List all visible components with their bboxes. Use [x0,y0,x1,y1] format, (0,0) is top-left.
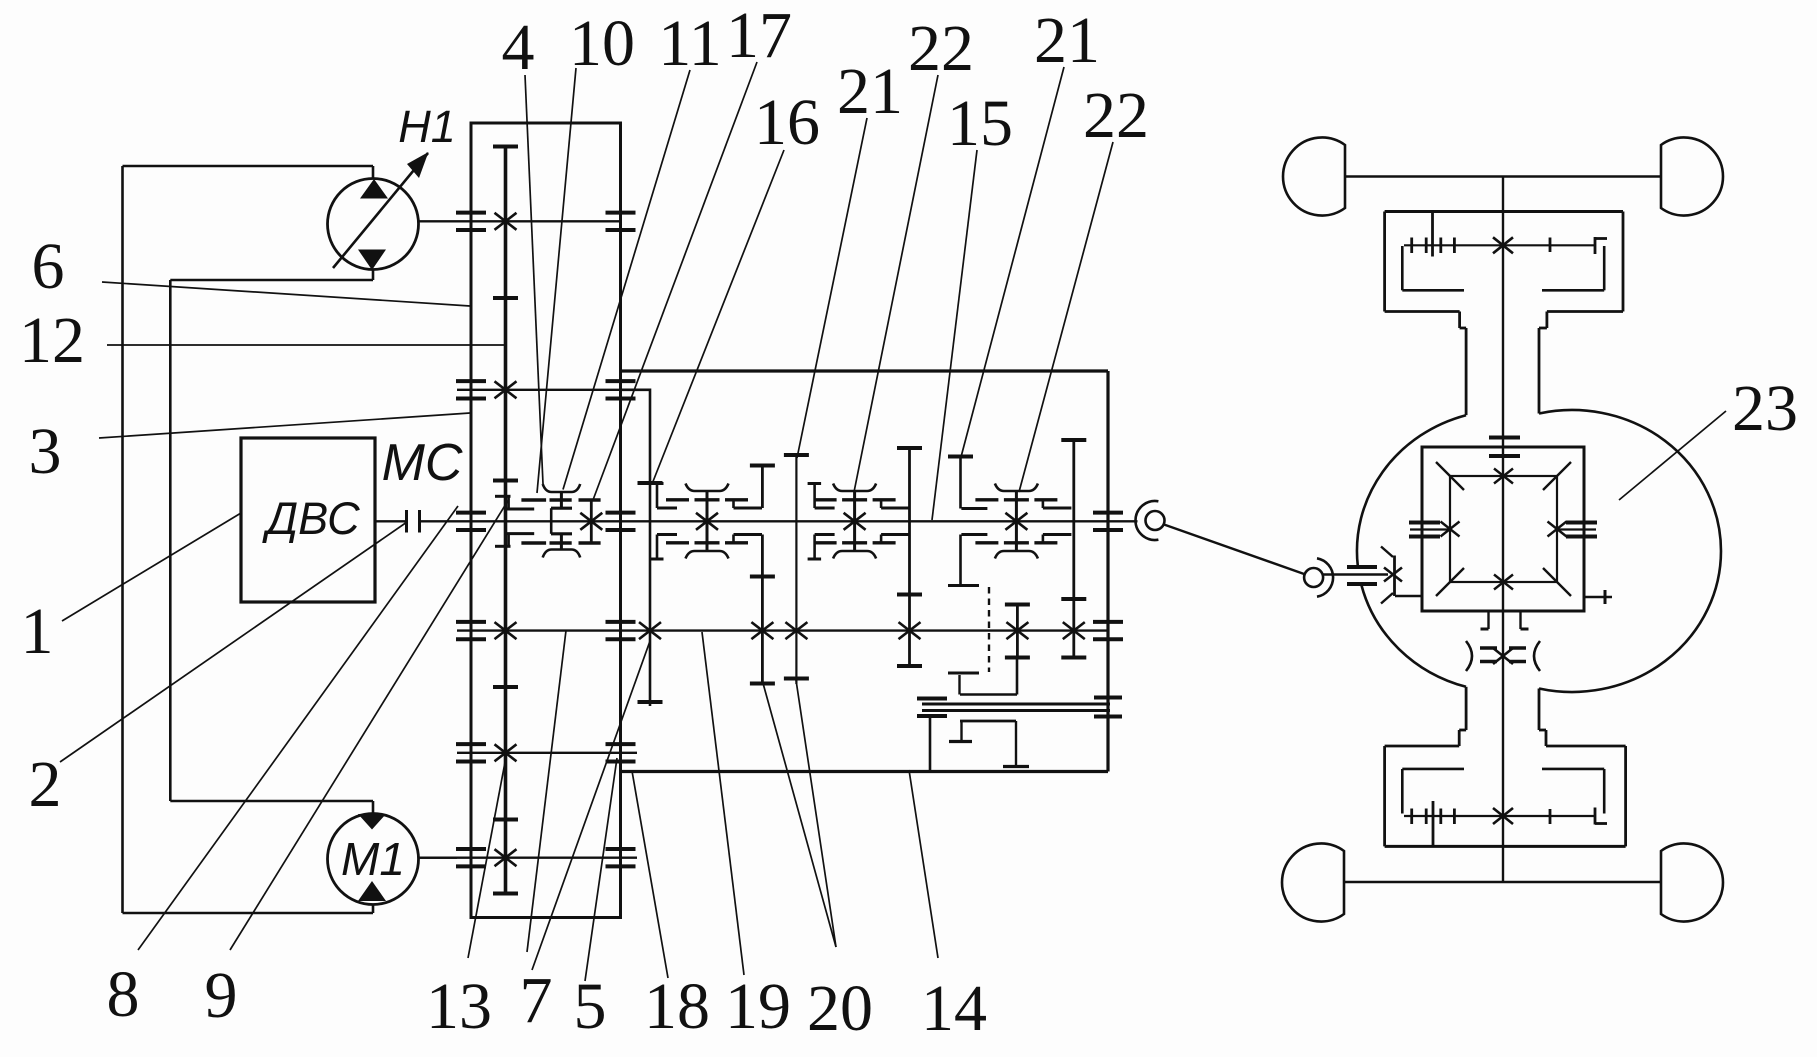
gear post right of unit 2 [761,466,764,509]
svg-text:МС: МС [382,434,463,492]
shift fork dashed linkage [948,584,979,587]
bearing center shaft upper [1489,436,1520,440]
bearing output shaft right wall [1093,511,1123,515]
bearing lower shaft drop box right wall [606,620,636,624]
svg-text:ДВС: ДВС [261,493,360,544]
leader 22 second [1019,142,1113,492]
wire hydraulic inner rail [169,280,172,801]
brake support post [917,714,947,718]
gear post right of unit 3 [908,448,911,666]
svg-text:21: 21 [1034,4,1100,77]
leader 6 [102,282,470,306]
wire hydraulic line pump top [123,165,374,168]
leader 23 [1619,411,1726,500]
svg-text:1: 1 [21,595,54,668]
bevel gear tick top-right [1543,462,1571,490]
shaft output stub [1108,520,1138,522]
leader 16 [652,150,784,484]
shaft lower intermediate [457,752,637,754]
top axle half shaft [1404,244,1596,246]
side gear shaft right [1584,596,1612,598]
final drive carrier top left [1401,246,1404,290]
gear mesh lower shaft x countershaft [495,622,517,639]
bearing bottom half shaft right [1549,809,1552,824]
countershaft gear tick a [493,296,518,300]
main gearbox housing right wall [1106,371,1109,772]
svg-text:14: 14 [921,972,987,1045]
svg-text:19: 19 [725,970,791,1043]
leader 14 [909,770,938,958]
leader 17 [593,62,757,500]
leader 12 [107,344,504,346]
shaft motor drive [419,857,638,859]
svg-text:7: 7 [520,964,553,1037]
svg-text:2: 2 [29,748,62,821]
brake bracket [960,720,1016,723]
countershaft gear tick c [493,685,518,689]
brake drum lines [922,703,1110,706]
svg-text:4: 4 [502,11,535,84]
gear mesh bottom axle [1493,808,1513,824]
shaft transfer input [1324,573,1389,575]
svg-text:17: 17 [726,0,792,72]
gear mesh motor shaft x countershaft [495,849,517,866]
svg-text:13: 13 [426,970,492,1043]
bearing input shaft right wall drop box [606,511,636,515]
svg-text:9: 9 [205,959,238,1032]
svg-text:3: 3 [29,415,62,488]
bearing top half shaft left [1410,238,1413,254]
joint flange input [1317,558,1333,596]
shaft pump drive [419,220,621,222]
wire hydraulic line motor bottom [123,912,374,915]
leader 21 second [961,67,1064,457]
leader 9 [230,499,509,950]
low range gear [1016,605,1019,658]
final drive carrier top right [1603,246,1606,290]
top axle housing [1385,210,1623,213]
leader 20 fork [764,685,837,947]
leader 3 [99,413,470,438]
countershaft vertical [504,146,508,895]
gear train to low gear [958,675,960,695]
bearing upper intermediate right wall [606,379,636,383]
gear post right of unit 4 [1072,440,1075,658]
shaft intermediate lower [457,629,1108,631]
bevel pinion input [1384,568,1402,582]
hydraulic motor M1 [328,814,419,905]
final drive carrier bottom left [1401,769,1404,814]
clutch MS disconnect [405,510,408,533]
bearing side gear left [1409,521,1440,525]
leader 10 [537,68,576,493]
countershaft gear tick b [493,479,518,483]
bearing input shaft left wall [456,511,486,515]
svg-text:8: 8 [107,958,140,1031]
side gear shaft right stub [1557,528,1596,530]
bevel gear mesh left [1441,522,1460,537]
bearing lower shaft left wall [456,620,486,624]
countershaft bottom cap [493,892,518,896]
gear post top axle [1431,212,1434,257]
leader 21 first [797,118,867,458]
main gearbox housing top [621,369,1109,372]
gear mesh lower intermediate x countershaft [495,744,517,761]
shaft engine output [375,520,406,522]
wire hydraulic left rail [121,166,124,913]
drop box housing [471,123,621,918]
gear mesh top axle [1493,237,1513,253]
bevel gear tick bottom-left [1436,568,1464,596]
wheel rear left [1282,844,1344,922]
bevel gear mesh top [1494,469,1513,484]
bearing motor shaft left wall [456,847,486,851]
svg-text:22: 22 [1083,79,1149,152]
differential inner gear square [1450,476,1557,582]
interaxle lockup clutch [1493,648,1513,664]
leader 18 [632,771,668,978]
bearing transfer case wall [1347,565,1377,569]
main gearbox housing bottom [621,770,1109,773]
svg-text:21: 21 [837,55,903,128]
bearing bottom half shaft left [1410,809,1413,825]
clutch unit 1 input [543,484,581,492]
svg-text:М1: М1 [341,833,405,885]
svg-text:23: 23 [1732,372,1798,445]
bottom axle half shaft [1404,815,1596,817]
shaft input main [457,520,1108,522]
svg-text:Н1: Н1 [398,101,456,152]
bearing motor shaft right wall [606,847,636,851]
leader 22 first [854,75,938,492]
countershaft top cap [493,145,518,149]
bearing upper intermediate left wall [456,379,486,383]
leader 2 [60,522,407,762]
bottom axle housing [1385,845,1626,848]
gear mesh upper intermediate x countershaft [495,381,517,398]
hydraulic pump H1 [328,179,419,270]
differential housing square [1422,447,1584,611]
leader 13 [468,757,506,958]
svg-text:10: 10 [569,7,635,80]
leader 5 [585,758,617,981]
final drive carrier bottom right [1603,769,1606,814]
svg-text:11: 11 [658,7,722,80]
wire hydraulic line pump bottom [372,270,375,281]
gear post left of unit 3 [795,455,797,684]
svg-text:12: 12 [19,304,85,377]
shaft central vertical [1502,177,1504,883]
clutch unit 2 [686,484,729,492]
bearing lower intermediate left wall [456,742,486,746]
drive link rod [1164,525,1306,575]
svg-text:15: 15 [947,87,1013,160]
axle rear [1344,881,1661,883]
transfer case 23 housing circle [1357,415,1466,566]
leader 19 [702,632,744,975]
bevel gear tick bottom-right [1543,568,1571,596]
gear mesh pump shaft x countershaft [495,213,517,230]
side gear shaft left stub [1410,528,1450,530]
leader 4 [525,75,543,484]
leader 11 [563,70,690,490]
wheel rear right [1661,844,1723,922]
svg-text:16: 16 [754,86,820,159]
leader 1 [62,513,241,621]
brake lower post [1015,721,1017,765]
svg-text:6: 6 [32,230,65,303]
leader 15 [932,150,977,520]
wire hydraulic line motor top [170,800,373,803]
bevel pinion carrier [1395,595,1422,598]
leader 7 [527,631,566,953]
shaft upper intermediate [457,389,650,391]
bearing pump shaft left wall [456,211,486,215]
svg-text:22: 22 [908,12,974,85]
svg-text:5: 5 [574,970,607,1043]
bevel gear mesh right [1548,522,1567,537]
axle front [1345,175,1661,177]
engine DVS box [241,438,375,602]
bearing lower intermediate right wall [606,742,636,746]
clutch unit 3 [833,484,876,492]
joint flange output [1135,501,1158,540]
wire motor M1 output shaft [419,857,458,859]
gear post left of unit 4 [959,457,962,509]
brake band upper bar [917,697,947,701]
bevel gear mesh bottom [1494,575,1513,590]
svg-text:20: 20 [807,972,873,1045]
bearing lower shaft gearbox right wall [1093,620,1123,624]
bearing side gear right [1566,521,1597,525]
countershaft gear tick d [493,818,518,822]
differential output collar [1487,611,1489,629]
bearing pump shaft right wall [606,211,636,215]
leader 8 [138,506,458,950]
gear post bottom axle [1432,801,1435,846]
bearing top half shaft right [1549,238,1552,253]
clutch unit 4 [995,484,1038,492]
bevel gear tick top-left [1436,462,1464,490]
leader 7 second [532,641,650,970]
gear post between drop box and unit 2 [621,390,651,706]
wheel front left [1283,138,1345,216]
svg-text:18: 18 [644,970,710,1043]
wheel front right [1661,138,1723,216]
bearing brake drum right wall [1094,696,1122,700]
